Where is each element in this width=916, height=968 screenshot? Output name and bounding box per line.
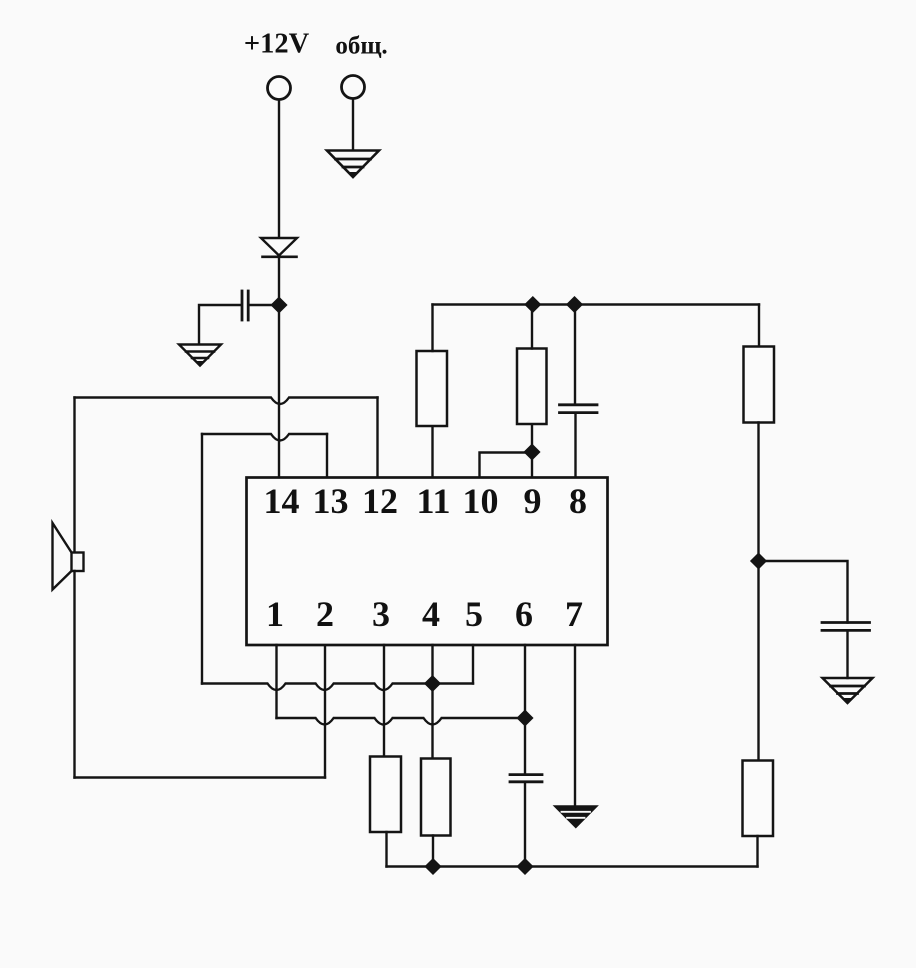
pin label 8: [569, 481, 587, 521]
ground (общ. terminal): [327, 151, 379, 178]
node: junction diode/C1: [272, 298, 287, 313]
node: R3/R4/C4 junction: [751, 554, 766, 569]
resistor R1: [417, 351, 448, 426]
svg-text:13: 13: [313, 481, 349, 521]
terminal общ.: [342, 76, 365, 99]
wire: pin 11 stub to resistor R1: [431, 426, 433, 477]
wire: junction to capacitor C4: [760, 561, 848, 623]
resistor R6: [421, 759, 451, 836]
wire: общ. terminal to ground: [352, 99, 354, 150]
capacitor C3: [510, 775, 542, 782]
svg-text:общ.: общ.: [335, 33, 387, 60]
ground (C1): [179, 345, 221, 366]
wire: C3 to bottom rail: [524, 782, 526, 867]
pin label 13: [313, 481, 349, 521]
wire: pin 5 stub: [472, 645, 474, 684]
svg-text:4: 4: [422, 594, 440, 634]
wire: pin 8 stub to capacitor C2: [574, 413, 576, 477]
node: pins 9/10 junction: [525, 445, 540, 460]
wire: R5 bottom to bottom rail: [385, 832, 387, 867]
svg-text:1: 1: [266, 594, 284, 634]
wire: +12V terminal to diode anode: [278, 100, 280, 238]
terminal +12V: [268, 77, 291, 100]
wire: junction to capacitor C1: [249, 304, 276, 306]
node: pin 6 / C3 junction: [518, 711, 533, 726]
wire: R3 bottom through junction to resistor R4: [757, 423, 759, 761]
pin label 9: [524, 481, 542, 521]
pin label 5: [465, 594, 483, 634]
wire: pin 2 vertical: [324, 645, 326, 778]
svg-text:10: 10: [463, 481, 499, 521]
resistor R2: [517, 349, 547, 425]
wire: junction to resistor R2: [531, 424, 533, 450]
wire: speaker vertical top: [73, 398, 75, 553]
wire: R2 top to top rail: [531, 305, 533, 349]
pin label 1: [266, 594, 284, 634]
wire: net pins 13/4/5 horizontal (hops over pins 1,2,3): [202, 684, 473, 691]
wire: speaker vertical bottom: [73, 571, 75, 778]
capacitor C4: [822, 623, 870, 631]
svg-text:8: 8: [569, 481, 587, 521]
pin label 14: [264, 481, 300, 521]
svg-text:11: 11: [416, 481, 450, 521]
wire: R1 top to top rail corner: [431, 305, 433, 352]
wire: R4 bottom to bottom rail corner: [756, 836, 758, 867]
capacitor C2: [560, 405, 598, 413]
resistor R3: [744, 347, 775, 423]
pin label 7: [565, 594, 583, 634]
svg-text:5: 5: [465, 594, 483, 634]
pin label 10: [463, 481, 499, 521]
speaker: [53, 523, 84, 590]
pin label 11: [416, 481, 450, 521]
svg-text:6: 6: [515, 594, 533, 634]
svg-text:+12V: +12V: [244, 29, 310, 60]
wire: pin 7 vertical to ground: [574, 645, 576, 807]
wire: left vertical x=202: [201, 434, 203, 684]
wire: pin 12 stub: [376, 398, 378, 477]
wire: net pins 1/6 horizontal (hops over pins 2,3,4): [277, 718, 526, 725]
svg-text:7: 7: [565, 594, 583, 634]
svg-text:9: 9: [524, 481, 542, 521]
pin label 6: [515, 594, 533, 634]
ground (pin 7): [556, 807, 597, 827]
wire: pin 9 stub: [531, 452, 533, 477]
wire: capacitor C1 to ground: [199, 305, 241, 344]
wire: net pin 13 horizontal (hop over +12V line): [202, 434, 327, 441]
ground (C4): [823, 678, 873, 703]
wire: pin 3 vertical to resistor R5: [383, 645, 385, 757]
wire: top rail corner down to resistor R3: [758, 305, 760, 347]
wire: bottom rail: [387, 865, 758, 867]
pin label 4: [422, 594, 440, 634]
wire: pin 6 vertical to capacitor C3: [524, 645, 526, 775]
node: pin 4 / net junction: [425, 676, 440, 691]
wire: pin 4 vertical to resistor R6: [431, 645, 433, 759]
wire: pin 1 vertical: [275, 645, 277, 718]
wire: C4 to ground: [846, 630, 848, 678]
svg-text:2: 2: [316, 594, 334, 634]
IC U1: [247, 478, 608, 646]
svg-text:14: 14: [264, 481, 300, 521]
label общ.: [335, 33, 387, 60]
node: top rail / C2: [567, 297, 582, 312]
node: top rail / R2: [525, 297, 540, 312]
svg-text:3: 3: [372, 594, 390, 634]
diode: [261, 238, 297, 257]
wire: net pin 12 to speaker (top horizontal, hop over +12V line): [75, 398, 378, 405]
capacitor C1: [242, 291, 248, 320]
wire: pin 13 stub: [326, 434, 328, 477]
pin label 3: [372, 594, 390, 634]
resistor R5: [370, 757, 401, 833]
wire: speaker bottom horizontal to pin 2 net: [75, 776, 326, 778]
wire: diode cathode to IC pin 14: [278, 257, 280, 477]
label +12V: [244, 29, 310, 60]
svg-text:12: 12: [362, 481, 398, 521]
wire: pin 10 stub and link to pin 9 node: [480, 453, 531, 477]
node: bottom rail / R6: [426, 859, 441, 874]
pin label 2: [316, 594, 334, 634]
pin label 12: [362, 481, 398, 521]
wire: C2 to top rail: [574, 305, 576, 405]
wire: top rail: [433, 303, 760, 305]
resistor R4: [743, 761, 774, 837]
wire: R6 bottom to bottom rail: [432, 836, 434, 867]
node: bottom rail / C3: [518, 859, 533, 874]
